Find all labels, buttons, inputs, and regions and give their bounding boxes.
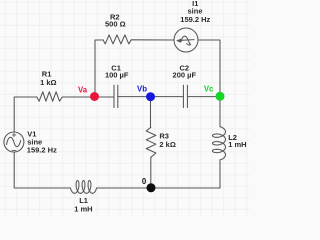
I1 arrowhead bbox=[176, 39, 181, 43]
wire C1 to node Vb bbox=[118, 96, 151, 98]
resistor R1 bbox=[37, 92, 63, 101]
V1 plus sign bbox=[12, 133, 15, 136]
V1 minus sign bbox=[12, 149, 16, 151]
wire I1 to top right corner down to Vc bbox=[198, 40, 220, 96]
svg-text:159.2 Hz: 159.2 Hz bbox=[180, 15, 210, 24]
I1 arrow shaft bbox=[178, 39, 194, 42]
svg-text:200 µF: 200 µF bbox=[173, 71, 197, 80]
svg-text:Vb: Vb bbox=[137, 85, 147, 94]
resistor R3 bbox=[146, 127, 156, 157]
resistor R2 bbox=[103, 35, 131, 44]
wire Vb to C2 bbox=[151, 96, 184, 98]
node Vc bbox=[216, 92, 225, 101]
wire R1 to C1 bbox=[62, 96, 114, 98]
wire R2 to I1 bbox=[131, 39, 174, 41]
svg-text:1 mH: 1 mH bbox=[74, 204, 92, 213]
svg-text:2 kΩ: 2 kΩ bbox=[159, 140, 175, 149]
inductor L1 bbox=[71, 181, 97, 194]
node Va bbox=[90, 92, 99, 101]
capacitor C1 bbox=[114, 85, 118, 107]
node 0 bbox=[147, 183, 156, 192]
wire L1 to bottom left corner up to V1 bbox=[14, 152, 70, 188]
wire V1 top up to left corner of middle branch bbox=[14, 97, 37, 132]
wire C2 to node Vc bbox=[187, 96, 220, 98]
wire Vc down to L2 bbox=[219, 96, 221, 127]
capacitor C2 bbox=[183, 85, 187, 107]
I1 sine overlay bbox=[181, 36, 190, 45]
node Vb bbox=[146, 92, 155, 101]
svg-text:500 Ω: 500 Ω bbox=[105, 20, 126, 29]
svg-text:1 mH: 1 mH bbox=[228, 140, 246, 149]
svg-text:0: 0 bbox=[142, 177, 147, 186]
wire R3 down to node 0 bbox=[150, 157, 152, 188]
svg-text:100 µF: 100 µF bbox=[105, 71, 129, 80]
svg-text:Va: Va bbox=[78, 85, 88, 94]
svg-text:1 kΩ: 1 kΩ bbox=[40, 78, 56, 87]
svg-text:Vc: Vc bbox=[204, 84, 214, 93]
V1 sine wave bbox=[7, 137, 21, 146]
svg-text:159.2 Hz: 159.2 Hz bbox=[27, 146, 57, 155]
wire node 0 to L1 bbox=[97, 187, 152, 189]
inductor L2 bbox=[213, 127, 226, 160]
voltage source V1 circle bbox=[4, 132, 24, 152]
wire L2 to bottom right corner to node 0 bbox=[151, 160, 220, 188]
wire riser from node Va up to R2 bbox=[95, 40, 103, 97]
wire Vb down to R3 bbox=[150, 97, 152, 128]
current source I1 circle bbox=[174, 28, 198, 52]
